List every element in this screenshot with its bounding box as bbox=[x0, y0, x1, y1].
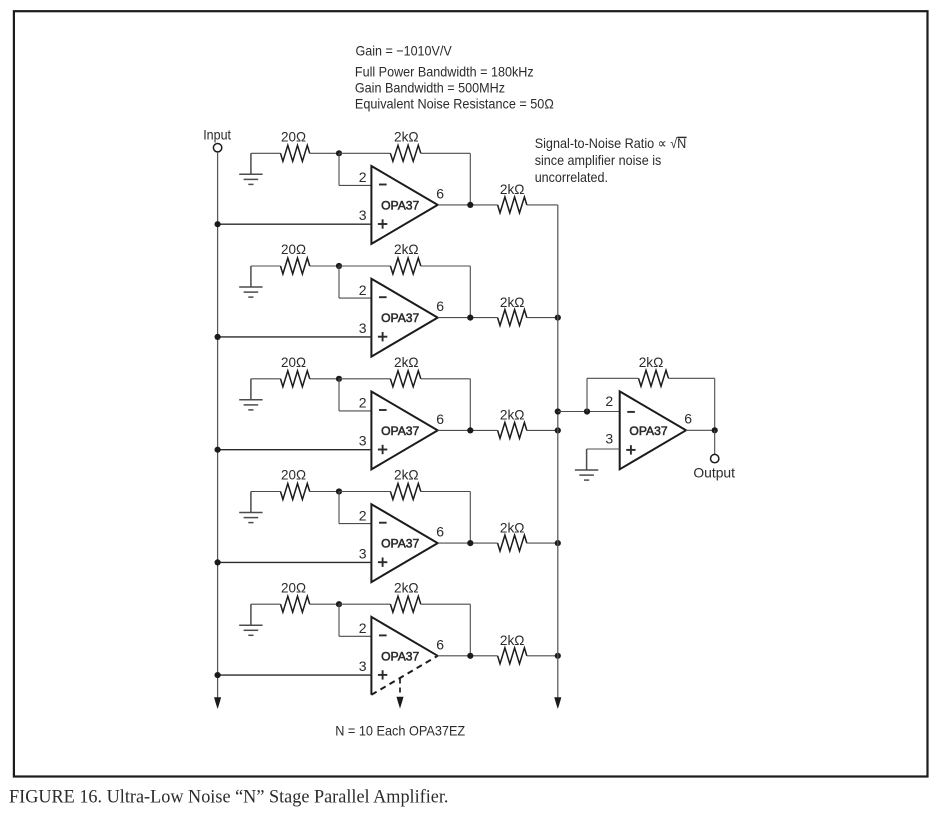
minus sign stage 4 bbox=[379, 522, 387, 524]
summing inverting node bbox=[584, 408, 590, 414]
svg-text:uncorrelated.: uncorrelated. bbox=[535, 169, 608, 185]
minus sign stage 5 bbox=[379, 634, 387, 636]
wire bbox=[339, 603, 390, 605]
wire bbox=[587, 448, 620, 450]
wire bbox=[338, 492, 340, 524]
wire bbox=[218, 449, 372, 451]
svg-text:2: 2 bbox=[605, 393, 613, 409]
input bus junction stage 2 bbox=[215, 334, 221, 340]
wire bbox=[339, 491, 390, 493]
svg-text:6: 6 bbox=[436, 524, 444, 540]
node stage 3 inverting junction bbox=[336, 376, 342, 382]
svg-text:3: 3 bbox=[359, 433, 367, 449]
svg-text:Gain = −1010V/V: Gain = −1010V/V bbox=[356, 43, 453, 59]
svg-text:6: 6 bbox=[436, 186, 444, 202]
wire bbox=[438, 317, 498, 319]
svg-text:20Ω: 20Ω bbox=[281, 241, 306, 257]
output terminal bbox=[711, 454, 719, 462]
minus sign stage 2 bbox=[379, 296, 387, 298]
summing bus junction stage 3 bbox=[555, 427, 561, 433]
wire bbox=[251, 491, 281, 493]
wire bbox=[586, 378, 588, 411]
ground stage 1 bbox=[239, 153, 262, 184]
wire bbox=[218, 336, 372, 338]
svg-text:3: 3 bbox=[605, 431, 613, 447]
svg-text:OPA37: OPA37 bbox=[381, 311, 419, 325]
svg-text:20Ω: 20Ω bbox=[281, 579, 306, 595]
svg-text:N = 10 Each OPA37EZ: N = 10 Each OPA37EZ bbox=[335, 723, 465, 739]
svg-text:Input: Input bbox=[203, 127, 231, 143]
resistor 2k&#937; feedback stage 3 bbox=[390, 371, 420, 387]
svg-text:2kΩ: 2kΩ bbox=[394, 579, 419, 595]
svg-text:2: 2 bbox=[359, 395, 367, 411]
svg-text:Signal-to-Noise Ratio ∝ √N: Signal-to-Noise Ratio ∝ √N bbox=[535, 135, 687, 151]
wire bbox=[438, 655, 498, 657]
resistor 2k&#937; feedback summing bbox=[639, 370, 669, 386]
plus sign stage 2 bbox=[378, 336, 387, 338]
svg-text:6: 6 bbox=[684, 410, 692, 426]
svg-text:3: 3 bbox=[359, 658, 367, 674]
input bus junction stage 3 bbox=[215, 447, 221, 453]
svg-text:2kΩ: 2kΩ bbox=[500, 294, 525, 310]
wire bbox=[438, 429, 498, 431]
summing output node bbox=[712, 427, 718, 433]
wire bbox=[527, 317, 558, 319]
wire bbox=[438, 204, 498, 206]
svg-text:Output: Output bbox=[693, 465, 735, 481]
svg-text:Full Power Bandwidth = 180kHz: Full Power Bandwidth = 180kHz bbox=[355, 63, 534, 79]
wire bbox=[251, 603, 281, 605]
svg-text:2kΩ: 2kΩ bbox=[394, 354, 419, 370]
wire bbox=[339, 378, 390, 380]
ground stage 3 bbox=[239, 379, 262, 410]
node stage 4 inverting junction bbox=[336, 488, 342, 494]
wire bbox=[310, 603, 339, 605]
op-amp OPA37 summing U6 bbox=[620, 391, 686, 469]
ground stage 4 bbox=[239, 492, 262, 523]
wire bbox=[714, 430, 716, 454]
input bus junction stage 4 bbox=[215, 559, 221, 565]
plus sign stage 4 bbox=[378, 561, 387, 563]
wire bbox=[527, 429, 558, 431]
node stage 2 inverting junction bbox=[336, 263, 342, 269]
summing tap junction bbox=[555, 408, 561, 414]
svg-text:2kΩ: 2kΩ bbox=[500, 519, 525, 535]
resistor 20&#937; stage 2 bbox=[281, 258, 310, 274]
wire bbox=[310, 152, 339, 154]
svg-text:2kΩ: 2kΩ bbox=[500, 632, 525, 648]
ground stage 5 bbox=[239, 604, 262, 635]
wire bbox=[251, 152, 281, 154]
wire bbox=[338, 604, 340, 636]
wire bbox=[421, 491, 471, 493]
output node stage 2 bbox=[467, 315, 473, 321]
svg-text:Equivalent Noise Resistance =: Equivalent Noise Resistance = 50Ω bbox=[355, 95, 554, 111]
svg-text:20Ω: 20Ω bbox=[281, 354, 306, 370]
ground summing bbox=[575, 449, 598, 480]
svg-text:2kΩ: 2kΩ bbox=[500, 407, 525, 423]
wire bbox=[527, 204, 558, 206]
svg-text:2kΩ: 2kΩ bbox=[500, 181, 525, 197]
resistor 2k&#937; output stage 2 bbox=[498, 310, 527, 326]
input bus wire bbox=[217, 152, 219, 699]
output node stage 4 bbox=[467, 540, 473, 546]
node stage 5 inverting junction bbox=[336, 601, 342, 607]
svg-text:6: 6 bbox=[436, 636, 444, 652]
wire bbox=[338, 379, 340, 411]
op-amp OPA37 stage 3 bbox=[371, 392, 437, 470]
wire bbox=[218, 561, 372, 563]
svg-text:2: 2 bbox=[359, 507, 367, 523]
op-amp OPA37 stage 2 bbox=[371, 279, 437, 357]
svg-text:FIGURE 16. Ultra-Low Noise “N”: FIGURE 16. Ultra-Low Noise “N” Stage Par… bbox=[9, 787, 449, 808]
resistor 2k&#937; output stage 5 bbox=[498, 648, 527, 664]
svg-text:2kΩ: 2kΩ bbox=[394, 241, 419, 257]
resistor 2k&#937; output stage 4 bbox=[498, 535, 527, 551]
wire bbox=[421, 265, 471, 267]
resistor 2k&#937; output stage 1 bbox=[498, 197, 527, 213]
minus sign stage 3 bbox=[379, 409, 387, 411]
minus sign summing bbox=[627, 411, 635, 413]
wire bbox=[310, 265, 339, 267]
wire bbox=[251, 265, 281, 267]
svg-text:OPA37: OPA37 bbox=[381, 649, 419, 663]
wire bbox=[251, 378, 281, 380]
svg-text:6: 6 bbox=[436, 411, 444, 427]
dashed continuation arrow bbox=[399, 679, 401, 697]
wire bbox=[527, 542, 558, 544]
svg-text:2: 2 bbox=[359, 169, 367, 185]
plus sign stage 3 bbox=[378, 449, 387, 451]
resistor 2k&#937; feedback stage 2 bbox=[390, 258, 420, 274]
input bus junction stage 1 bbox=[215, 221, 221, 227]
svg-text:OPA37: OPA37 bbox=[381, 537, 419, 551]
op-amp OPA37 stage 4 bbox=[371, 504, 437, 582]
svg-text:6: 6 bbox=[436, 298, 444, 314]
resistor 2k&#937; output stage 3 bbox=[498, 422, 527, 438]
svg-text:3: 3 bbox=[359, 207, 367, 223]
wire bbox=[558, 411, 620, 413]
resistor 2k&#937; feedback stage 1 bbox=[390, 145, 420, 161]
wire bbox=[421, 152, 471, 154]
svg-text:20Ω: 20Ω bbox=[281, 129, 306, 145]
wire bbox=[421, 378, 471, 380]
plus sign summing bbox=[626, 449, 635, 451]
op-amp OPA37 stage 1 bbox=[371, 166, 437, 244]
wire bbox=[527, 655, 558, 657]
resistor 20&#937; stage 4 bbox=[281, 484, 310, 500]
input terminal bbox=[213, 144, 221, 152]
svg-text:OPA37: OPA37 bbox=[629, 424, 667, 438]
wire bbox=[339, 152, 390, 154]
plus sign stage 5 bbox=[378, 674, 387, 676]
input bus arrow bbox=[214, 697, 221, 709]
summing bus wire bbox=[557, 205, 559, 699]
summing bus junction stage 4 bbox=[555, 540, 561, 546]
output node stage 1 bbox=[467, 202, 473, 208]
input bus junction stage 5 bbox=[215, 672, 221, 678]
wire bbox=[338, 153, 340, 185]
summing bus junction stage 2 bbox=[555, 315, 561, 321]
svg-text:20Ω: 20Ω bbox=[281, 467, 306, 483]
wire bbox=[339, 265, 390, 267]
op-amp OPA37 stage 5 bbox=[371, 617, 437, 695]
summing bus junction stage 5 bbox=[555, 653, 561, 659]
wire bbox=[421, 603, 471, 605]
wire bbox=[218, 223, 372, 225]
wire bbox=[686, 429, 715, 431]
svg-text:since amplifier noise is: since amplifier noise is bbox=[535, 152, 662, 168]
resistor 20&#937; stage 1 bbox=[281, 145, 310, 161]
svg-text:OPA37: OPA37 bbox=[381, 199, 419, 213]
resistor 20&#937; stage 5 bbox=[281, 596, 310, 612]
wire bbox=[338, 266, 340, 298]
summing bus arrow bbox=[554, 697, 561, 709]
node stage 1 inverting junction bbox=[336, 150, 342, 156]
output node stage 3 bbox=[467, 427, 473, 433]
svg-text:3: 3 bbox=[359, 320, 367, 336]
plus sign stage 1 bbox=[378, 223, 387, 225]
resistor 2k&#937; feedback stage 4 bbox=[390, 484, 420, 500]
ground stage 2 bbox=[239, 266, 262, 297]
svg-text:3: 3 bbox=[359, 545, 367, 561]
svg-text:2: 2 bbox=[359, 620, 367, 636]
svg-text:Gain Bandwidth = 500MHz: Gain Bandwidth = 500MHz bbox=[355, 79, 505, 95]
wire bbox=[310, 378, 339, 380]
svg-text:2kΩ: 2kΩ bbox=[394, 467, 419, 483]
minus sign stage 1 bbox=[379, 184, 387, 186]
wire bbox=[438, 542, 498, 544]
svg-text:OPA37: OPA37 bbox=[381, 424, 419, 438]
svg-text:2kΩ: 2kΩ bbox=[639, 354, 664, 370]
svg-text:2kΩ: 2kΩ bbox=[394, 129, 419, 145]
output node stage 5 bbox=[467, 653, 473, 659]
wire bbox=[218, 674, 372, 676]
resistor 20&#937; stage 3 bbox=[281, 371, 310, 387]
resistor 2k&#937; feedback stage 5 bbox=[390, 596, 420, 612]
wire bbox=[669, 377, 715, 379]
svg-text:2: 2 bbox=[359, 282, 367, 298]
wire bbox=[310, 491, 339, 493]
